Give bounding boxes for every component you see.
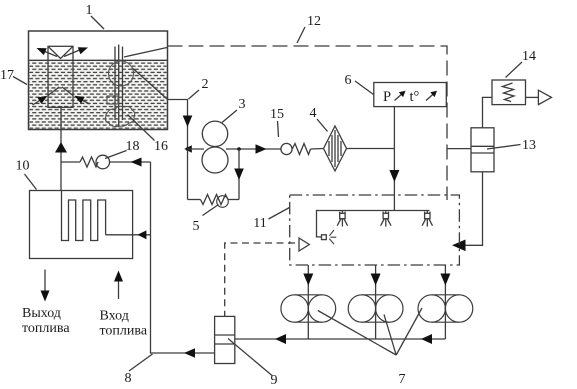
igniter square bbox=[322, 235, 327, 240]
leaders label 7 bbox=[318, 308, 422, 355]
arrow left on valve 18 wire bbox=[131, 158, 142, 167]
wire into heat exchanger 10 bbox=[106, 234, 151, 236]
svg-text:12: 12 bbox=[307, 14, 321, 29]
wire filter to regulator branch bbox=[347, 148, 395, 150]
svg-text:топлива: топлива bbox=[100, 324, 148, 339]
jet pump body in tank bbox=[48, 46, 73, 107]
cooler pair B bbox=[348, 295, 403, 322]
arrow down on wire 2 bbox=[183, 116, 193, 128]
arrow down to manifold bbox=[389, 170, 399, 182]
wire dashed 12 to valve 13 bbox=[447, 148, 471, 150]
wire valve 13 to chamber bbox=[464, 172, 483, 246]
svg-text:16: 16 bbox=[154, 139, 168, 154]
valve 9 bbox=[215, 316, 235, 363]
valve 13 bbox=[471, 128, 494, 172]
svg-text:топлива: топлива bbox=[22, 321, 70, 336]
fuel outlet arrow bbox=[41, 270, 50, 302]
wire regulator to manifold bbox=[393, 107, 395, 211]
arrow down cooler C bbox=[440, 274, 450, 286]
leader label 8 bbox=[129, 354, 153, 371]
heat exchanger 10 coil bbox=[62, 191, 106, 241]
leader label 11 bbox=[269, 208, 290, 220]
node at pump inlet junction bbox=[186, 147, 190, 151]
heat exchanger 10 box bbox=[30, 191, 133, 259]
leader label 12 bbox=[297, 27, 305, 43]
leader label 2 bbox=[189, 90, 200, 99]
tank 1 walls bbox=[29, 31, 168, 130]
cooler pair C bbox=[418, 295, 473, 322]
leader label 17 bbox=[13, 77, 27, 85]
relief valve 5 bbox=[188, 195, 240, 208]
leader label 14 bbox=[506, 62, 523, 78]
bypass wire left leg bbox=[187, 149, 189, 200]
regulator 6 box bbox=[374, 83, 447, 107]
regulator 6 up-arrow glyph 2 bbox=[426, 91, 437, 101]
fuel inlet arrow bbox=[114, 271, 123, 300]
fuel manifold bbox=[317, 211, 430, 237]
leader label 15 bbox=[278, 121, 279, 137]
jet pump arrow bottom-left bbox=[33, 96, 48, 105]
jet pump arrow top-right bbox=[64, 47, 88, 56]
igniter spark rays bbox=[329, 230, 336, 244]
tank 1 fluid fill bbox=[29, 61, 166, 129]
regulator 6 text bbox=[383, 89, 420, 105]
svg-text:2: 2 bbox=[202, 77, 209, 92]
wire valve 13 to drain valve 14 bbox=[483, 97, 493, 127]
booster pump 16 inlet body bbox=[105, 96, 134, 127]
injector C bbox=[422, 211, 432, 227]
arrow down cooler A bbox=[303, 274, 313, 286]
injector B bbox=[381, 211, 391, 227]
leader label 10 bbox=[25, 174, 37, 190]
svg-text:14: 14 bbox=[522, 49, 536, 64]
leader label 18 bbox=[105, 151, 127, 159]
wire drain valve 14 outlet bbox=[526, 96, 539, 98]
cooler pair A bbox=[281, 295, 336, 322]
fluid level line 17 bbox=[29, 59, 168, 61]
drain valve 14 bbox=[492, 80, 526, 105]
wire pump discharge bbox=[226, 148, 281, 150]
leader label 6 bbox=[355, 81, 374, 95]
svg-text:10: 10 bbox=[16, 159, 30, 174]
leader label 3 bbox=[222, 110, 237, 123]
outlet nozzle triangle bbox=[538, 90, 551, 104]
arrow down cooler B bbox=[371, 274, 381, 286]
pump 3 bbox=[202, 121, 228, 173]
svg-text:8: 8 bbox=[125, 371, 132, 386]
arrow right on discharge bbox=[256, 144, 267, 154]
combustion chamber 11 boundary bbox=[290, 195, 460, 265]
dashed control wire to valve 9 bbox=[225, 243, 295, 316]
node at discharge junction bbox=[237, 147, 241, 151]
jet pump arrow top-left bbox=[37, 48, 58, 57]
leader label 16 bbox=[128, 115, 155, 141]
check valve 15 bbox=[281, 143, 311, 154]
drop wire cooler C bbox=[444, 265, 446, 339]
wire ejector feed bbox=[60, 107, 62, 190]
drop wire cooler B bbox=[375, 265, 377, 339]
leader label 4 bbox=[317, 119, 328, 132]
svg-text:P: P bbox=[383, 89, 391, 105]
wire return bottom bbox=[235, 338, 446, 340]
wire check valve to filter bbox=[311, 148, 324, 151]
svg-text:17: 17 bbox=[0, 68, 14, 83]
svg-text:4: 4 bbox=[310, 106, 317, 121]
arrow up on ejector feed bbox=[55, 142, 67, 153]
wire 9 leader line 8 bbox=[151, 162, 215, 353]
svg-text:t°: t° bbox=[410, 89, 420, 105]
svg-text:11: 11 bbox=[253, 216, 266, 231]
bypass wire right leg bbox=[238, 149, 240, 200]
svg-text:Вход: Вход bbox=[100, 309, 129, 324]
booster pump 16 impeller circle bbox=[109, 61, 134, 86]
leader label 5 bbox=[203, 205, 219, 216]
svg-text:13: 13 bbox=[522, 138, 536, 153]
arrow left at junction bbox=[184, 145, 192, 153]
filter 4 bbox=[324, 126, 347, 171]
wire 2 tank to pump bbox=[168, 100, 188, 150]
svg-text:3: 3 bbox=[239, 97, 246, 112]
svg-text:Выход: Выход bbox=[22, 306, 61, 321]
svg-text:7: 7 bbox=[399, 372, 406, 387]
arrow left on return near pair 3 bbox=[421, 334, 432, 344]
jet pump arrow bottom-right bbox=[75, 96, 90, 104]
igniter horn triangle bbox=[299, 238, 309, 251]
leader label 1 bbox=[91, 16, 104, 29]
leader from pump 16 to wire 2 bbox=[133, 69, 167, 100]
leader from pump 16 to dashed line 12 bbox=[124, 48, 167, 58]
wire pump suction bbox=[188, 148, 205, 150]
injector A bbox=[337, 211, 347, 227]
drop wire cooler A bbox=[307, 265, 309, 339]
thermo valve 18 bbox=[61, 155, 151, 169]
svg-text:5: 5 bbox=[193, 219, 200, 234]
arrow left on return near valve 9 bbox=[275, 334, 286, 344]
arrow left on line 8 bbox=[184, 348, 195, 358]
regulator 6 up-arrow glyph 1 bbox=[395, 91, 406, 101]
arrow into chamber right bbox=[452, 240, 466, 252]
svg-text:9: 9 bbox=[271, 373, 278, 388]
arrow left into heat exchanger bbox=[137, 230, 146, 239]
arrow down on bypass bbox=[234, 169, 244, 181]
svg-text:1: 1 bbox=[86, 3, 93, 18]
svg-text:18: 18 bbox=[126, 139, 140, 154]
svg-text:6: 6 bbox=[345, 73, 352, 88]
leader label 13 bbox=[487, 145, 521, 150]
dashed control line 12 bbox=[168, 46, 448, 200]
booster pump 16 tube bbox=[115, 45, 123, 128]
leader label 9 bbox=[228, 339, 272, 376]
svg-text:15: 15 bbox=[270, 107, 284, 122]
